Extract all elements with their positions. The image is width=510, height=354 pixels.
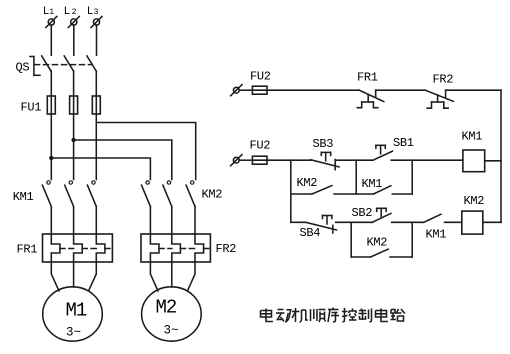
pushbutton SB1 (NO) [373, 145, 393, 160]
wire L3 to QS [96, 25, 98, 55]
svg-text:2: 2 [72, 8, 77, 17]
char 顺 [311, 309, 326, 322]
wire SB4 to SB2 [336, 221, 373, 223]
pushbutton SB4 (NC) [306, 216, 337, 234]
label FR1 [17, 243, 38, 257]
wire SB1 to KM1 coil [391, 159, 463, 161]
wire FR1 to motor M1 (phase3) [89, 262, 97, 291]
char 路 [391, 309, 406, 321]
wire KM2 contacts to FR2 (phase1) [149, 207, 151, 235]
label KM2 [202, 187, 223, 201]
wire L2 to QS [73, 25, 75, 55]
title 电动机顺序控制电路 (hand-drawn) [261, 308, 406, 323]
wire FR2 to right bus [446, 89, 501, 91]
motor M1 [43, 287, 103, 341]
svg-text:FR1: FR1 [357, 70, 378, 84]
wire junction row3 right drop [411, 222, 413, 257]
char 机 [292, 308, 308, 322]
contactor KM2 main contact phase1 [142, 181, 151, 207]
wire terminal to FU2 top [239, 89, 252, 91]
wire junction middle drop [355, 160, 357, 194]
wire row3 left [291, 221, 306, 223]
wire SB2 to KM1 contact [392, 221, 424, 223]
svg-text:3~: 3~ [66, 325, 81, 339]
label KM2 coil [464, 194, 485, 208]
label M2 [156, 296, 179, 337]
wire KM1 coil to bus [485, 160, 501, 162]
svg-text:3~: 3~ [164, 323, 179, 337]
right bus wire [500, 90, 502, 222]
label SB4 [300, 226, 321, 240]
wire junction row3 left drop [350, 222, 352, 257]
svg-text:SB4: SB4 [300, 226, 321, 240]
wire KM1 contacts to FR1 (phase3) [95, 207, 97, 235]
wire L1 to QS [50, 25, 52, 55]
wire KM2 contacts to FR2 (phase2) [171, 207, 173, 235]
wire SB3 to SB1 [335, 159, 373, 161]
motor M2 [142, 287, 202, 341]
wire QS to FU1 (phase2) [73, 71, 75, 96]
char 动 [276, 310, 291, 323]
wire FU1 to KM1 contacts (phase2) [73, 114, 75, 180]
contact KM2 auxiliary (row3) [351, 249, 412, 257]
svg-text:FR2: FR2 [433, 72, 454, 86]
coil KM1 [463, 150, 485, 172]
char 制 [359, 309, 372, 322]
contact KM1 (row3) [424, 214, 462, 222]
thermal relay FR1 heater box [43, 234, 113, 262]
label FU1 [21, 100, 42, 114]
svg-text:KM2: KM2 [367, 236, 388, 250]
char 控 [342, 308, 357, 322]
svg-text:FU1: FU1 [21, 100, 42, 114]
wire junction left drop [290, 160, 292, 222]
wire branch phase1 to KM2 [51, 158, 150, 180]
switch QS [30, 56, 96, 75]
label L2 [64, 6, 77, 18]
wire QS to FU1 (phase1) [50, 71, 52, 96]
wire junction right drop [411, 160, 413, 194]
label KM2 aux row2 [297, 176, 318, 190]
terminal L3 [91, 17, 102, 28]
thermal relay FR2 heater box [141, 234, 210, 262]
svg-text:QS: QS [16, 61, 30, 75]
wire KM2 contacts to FR2 (phase3) [194, 207, 196, 235]
thermal relay FR1 NC contact [357, 90, 384, 108]
svg-text:SB3: SB3 [313, 137, 334, 151]
wire KM1 contacts to FR1 (phase2) [73, 207, 75, 235]
label SB2 [352, 206, 373, 220]
svg-text:M1: M1 [66, 300, 87, 322]
label L3 [87, 6, 99, 18]
svg-text:1: 1 [49, 8, 54, 17]
contact KM2 auxiliary (row2) [291, 186, 356, 194]
wire FU1 to KM1 contacts (phase1) [50, 114, 52, 180]
svg-text:SB1: SB1 [393, 136, 414, 150]
svg-text:M2: M2 [156, 296, 177, 318]
wire FR2 to motor M2 (phase3) [188, 262, 196, 291]
svg-text:KM1: KM1 [13, 190, 34, 204]
terminal L2 [68, 17, 79, 28]
label FR1 control [357, 70, 378, 84]
contact KM1 auxiliary (row2) [356, 186, 412, 194]
label L1 [43, 6, 55, 18]
wire FR1 to FR2 contact [376, 89, 426, 91]
contactor KM1 main contact phase1 [42, 181, 51, 207]
junction dot phase2 branch [71, 138, 75, 142]
wire FR1 to motor M1 (phase1) [51, 262, 59, 291]
label FU2 top [250, 70, 271, 84]
contactor KM2 main contact phase2 [163, 181, 172, 207]
wire terminal to FU2 bottom [239, 159, 252, 161]
label KM2 aux row3 [367, 236, 388, 250]
wire QS to FU1 (phase3) [95, 71, 97, 96]
label FR2 control [433, 72, 454, 86]
svg-text:KM1: KM1 [426, 228, 447, 242]
char 电 (second) [376, 309, 389, 322]
svg-text:3: 3 [94, 8, 99, 17]
fuse FU2 top [252, 86, 267, 94]
fuse FU1 phase3 [92, 96, 100, 114]
label FR2 [216, 242, 237, 256]
label FU2 bottom [250, 138, 271, 152]
label KM1 aux row2 [362, 177, 383, 191]
svg-text:KM2: KM2 [464, 194, 485, 208]
terminal L1 [46, 17, 57, 28]
svg-text:FR1: FR1 [17, 243, 38, 257]
label SB1 [393, 136, 414, 150]
wire branch phase3 to KM2 [96, 123, 195, 180]
wire KM2 coil to bus [483, 221, 501, 223]
wire FR1 to motor M1 (phase2) [73, 262, 75, 287]
contactor KM2 main contact phase3 [186, 181, 195, 207]
wire FU1 to KM1 contacts (phase3) [95, 114, 97, 180]
svg-text:KM2: KM2 [202, 187, 223, 201]
svg-text:KM1: KM1 [462, 129, 483, 143]
svg-text:FU2: FU2 [250, 138, 271, 152]
pushbutton SB2 (NO) [372, 208, 391, 222]
svg-text:KM1: KM1 [362, 177, 383, 191]
junction dot phase1 branch [49, 156, 53, 160]
contactor KM1 main contact phase3 [87, 181, 96, 207]
svg-text:L: L [87, 6, 94, 18]
label QS [16, 61, 30, 75]
wire branch phase2 to KM2 [74, 140, 172, 180]
fuse FU1 phase2 [70, 96, 78, 114]
fuse FU2 bottom [252, 156, 267, 164]
svg-text:SB2: SB2 [352, 206, 373, 220]
label KM1 row3 [426, 228, 447, 242]
char 电 [261, 309, 274, 322]
char 序 [328, 308, 339, 323]
pushbutton SB3 (NC) [311, 152, 339, 169]
fuse FU1 phase1 [47, 96, 55, 114]
svg-text:FR2: FR2 [216, 242, 237, 256]
svg-text:FU2: FU2 [250, 70, 271, 84]
wire FU2 to SB3 [267, 159, 311, 161]
label KM1 coil [462, 129, 483, 143]
label KM1 [13, 190, 34, 204]
wire FU2 to FR1 contact [267, 89, 359, 91]
thermal relay FR2 NC contact [425, 90, 453, 108]
terminal control row2 [231, 155, 242, 166]
svg-text:KM2: KM2 [297, 176, 318, 190]
terminal control row1 [231, 85, 242, 96]
label SB3 [313, 137, 334, 151]
contactor KM1 main contact phase2 [65, 181, 74, 207]
label M1 [66, 300, 87, 340]
wire KM1 contacts to FR1 (phase1) [50, 207, 52, 235]
svg-text:L: L [64, 6, 71, 18]
coil KM2 [462, 211, 483, 234]
wire FR2 to motor M2 (phase1) [150, 262, 158, 291]
wire FR2 to motor M2 (phase2) [171, 262, 173, 287]
